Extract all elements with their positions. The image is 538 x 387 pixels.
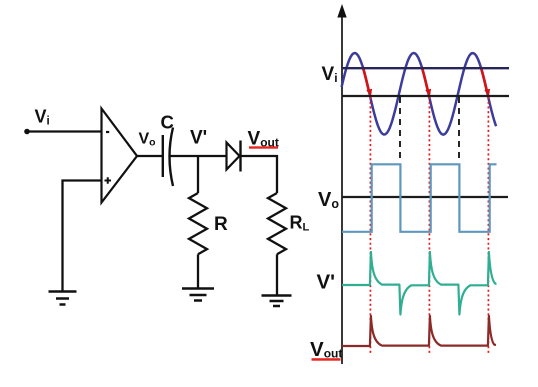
wire V-prime node down to resistor R [197, 156, 199, 193]
black dashed line 2 [458, 97, 460, 162]
pin plus marker [105, 177, 112, 184]
svg-text:RL: RL [290, 213, 310, 234]
svg-text:Vi: Vi [322, 64, 338, 85]
op-amp U1 [102, 109, 138, 203]
Vo zero line (black) [342, 196, 508, 198]
wire Vi to op-amp inverting input [27, 130, 102, 132]
svg-text:R: R [214, 214, 228, 235]
diode D1 [227, 143, 240, 170]
red underline of Vout [249, 146, 278, 148]
ground (op-amp non-inverting input) [49, 292, 77, 305]
capacitor C left plate [162, 135, 164, 177]
wire non-inverting input to ground [63, 181, 102, 291]
wire capacitor to V-prime node and diode [170, 155, 227, 157]
capacitor C right plate (curved) [170, 128, 174, 187]
sine wave Vi [342, 53, 497, 135]
wire diode to RL [241, 156, 278, 193]
red arrow 1 [363, 67, 369, 92]
red arrow 3 [481, 67, 487, 92]
square wave Vo [342, 164, 497, 232]
svg-text:Vo: Vo [318, 189, 339, 211]
reference level line (navy) [342, 67, 509, 69]
red underline of Vout (waveform) [312, 358, 341, 361]
axis arrowhead [337, 4, 346, 18]
waveform Vout (rectified spikes) [342, 316, 496, 346]
wire resistor RL to ground [276, 254, 278, 294]
wire op-amp output to capacitor [137, 155, 163, 157]
resistor R [189, 193, 207, 254]
red dotted line 1 [369, 97, 371, 355]
wire resistor R to ground [197, 254, 199, 287]
node Vi input terminal [24, 129, 30, 135]
pin minus marker [106, 131, 109, 133]
svg-text:V': V' [190, 128, 207, 149]
red dotted line 3 [487, 97, 489, 355]
axis vertical line [341, 15, 343, 364]
resistor RL [268, 193, 286, 254]
svg-text:Vi: Vi [35, 107, 50, 128]
waveform V-prime (differentiated) [342, 252, 497, 315]
red arrow 2 [422, 67, 428, 92]
ground (resistor R) [182, 289, 214, 301]
zero level line (black) [342, 95, 509, 97]
svg-text:Vo: Vo [139, 131, 156, 149]
black dashed line 1 [399, 97, 401, 162]
svg-text:V': V' [317, 271, 336, 294]
red dotted line 2 [428, 97, 430, 355]
diode D1 cathode bar [239, 141, 241, 172]
ground (resistor RL) [262, 296, 292, 307]
svg-text:Vout: Vout [310, 338, 342, 361]
